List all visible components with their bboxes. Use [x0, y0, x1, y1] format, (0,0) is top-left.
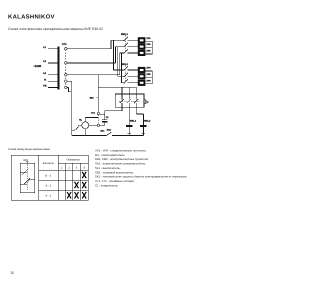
- svg-text:ХР2: ХР2: [146, 43, 151, 46]
- svg-text:ХР3: ХР3: [146, 49, 151, 52]
- svg-text:KALASHNIKOV: KALASHNIKOV: [8, 13, 55, 20]
- svg-text:Схема электрическая принципиал: Схема электрическая принципиальная машин…: [8, 27, 103, 31]
- svg-text:L3: L3: [43, 72, 46, 75]
- svg-text:КМ1.1: КМ1.1: [130, 119, 137, 122]
- svg-text:КМ1.1: КМ1.1: [121, 33, 128, 36]
- svg-text:С1 - конденсатор.: С1 - конденсатор.: [95, 183, 118, 187]
- svg-text:2: 2: [68, 166, 70, 169]
- svg-text:~220В: ~220В: [33, 65, 41, 68]
- svg-text:N: N: [44, 78, 46, 81]
- svg-text:ХР4: ХР4: [146, 67, 151, 70]
- svg-text:ХТ1: ХТ1: [62, 43, 67, 46]
- svg-text:ХР6: ХР6: [146, 79, 151, 82]
- svg-text:Контакты: Контакты: [43, 162, 54, 165]
- svg-text:L1: L1: [43, 46, 46, 49]
- svg-text:В - 3: В - 3: [46, 174, 52, 177]
- svg-text:4: 4: [83, 166, 85, 169]
- svg-text:SB1: SB1: [90, 96, 95, 99]
- svg-text:t°: t°: [147, 101, 149, 104]
- svg-text:1: 1: [61, 166, 63, 169]
- svg-text:HL: HL: [79, 119, 83, 122]
- svg-text:КМ1.2: КМ1.2: [144, 119, 151, 122]
- svg-text:PE: PE: [43, 85, 47, 88]
- svg-text:А - 3: А - 3: [46, 184, 52, 187]
- svg-text:16: 16: [10, 271, 14, 275]
- svg-text:SQ1: SQ1: [107, 129, 112, 132]
- svg-text:Положение: Положение: [67, 158, 81, 161]
- svg-text:ХТ2: ХТ2: [91, 112, 96, 115]
- svg-text:3: 3: [76, 166, 78, 169]
- svg-text:ХТ2: ХТ2: [23, 159, 28, 162]
- svg-text:ХР1: ХР1: [146, 37, 151, 40]
- svg-text:ХР5: ХР5: [146, 73, 151, 76]
- svg-text:С1: С1: [106, 116, 110, 119]
- svg-text:КМ1.2: КМ1.2: [121, 63, 128, 66]
- svg-text:Схема коммутации перемычками: Схема коммутации перемычками: [8, 148, 50, 151]
- svg-text:SK1: SK1: [100, 130, 105, 133]
- svg-text:L2: L2: [43, 60, 46, 63]
- svg-text:А - 2: А - 2: [46, 195, 52, 198]
